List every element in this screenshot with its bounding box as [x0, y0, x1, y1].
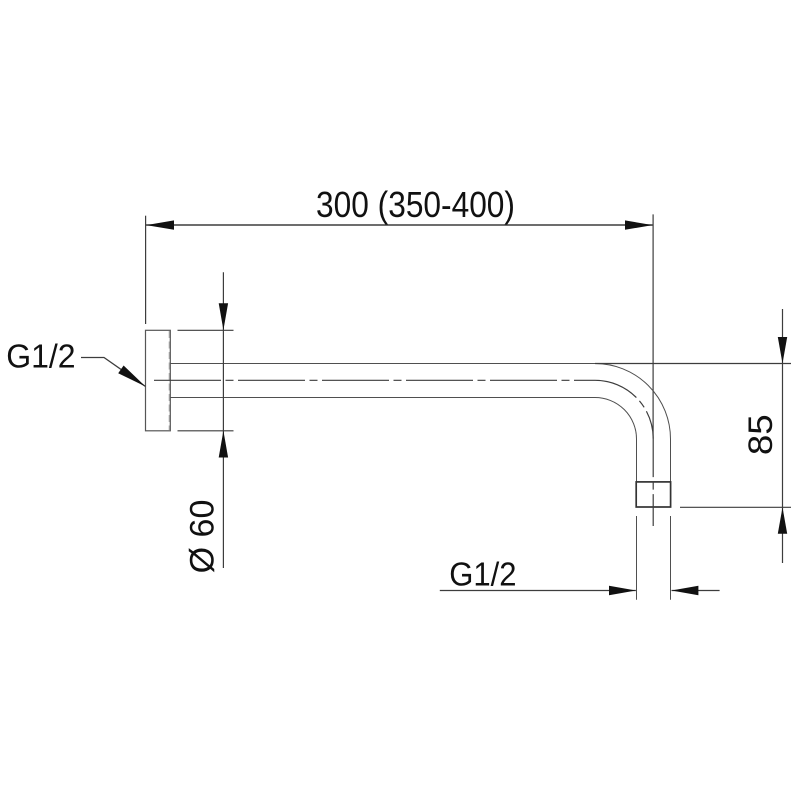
svg-text:G1/2: G1/2 — [449, 556, 516, 593]
leader arrowhead — [118, 366, 145, 387]
union nut — [636, 482, 670, 507]
dimension line 300 (350-400) — [146, 224, 653, 226]
extension line flange top — [178, 329, 234, 331]
outlet dimension line left part — [440, 590, 636, 592]
extension line tube top level — [595, 363, 791, 365]
tube below nut left line — [636, 516, 638, 600]
outlet dimension line right part — [672, 590, 720, 592]
tube bottom outline with inner bend arc — [170, 398, 636, 482]
svg-text:300 (350-400): 300 (350-400) — [316, 185, 515, 225]
extension line right (outlet axis) — [652, 214, 654, 438]
tube below nut right line — [670, 516, 672, 600]
arrow left of 300 dimension — [146, 220, 174, 229]
arrow up to flange bottom — [219, 431, 228, 458]
arrow right of 300 dimension — [625, 220, 653, 229]
extension line nut bottom level — [680, 506, 791, 508]
85 dimension line — [782, 309, 784, 563]
svg-text:G1/2: G1/2 — [6, 338, 75, 375]
centerline (dash-dot) — [154, 380, 653, 526]
svg-text:85: 85 — [742, 414, 779, 455]
extension line left (flange face) — [145, 216, 147, 324]
arrow down to flange top — [219, 303, 228, 330]
arrow up to nut bottom level — [778, 507, 787, 534]
svg-text:Ø 60: Ø 60 — [184, 500, 222, 574]
arrow down to tube top level — [778, 337, 787, 364]
arrow pointing left at tube right line — [672, 586, 699, 595]
flange (wall plate) — [146, 330, 171, 431]
arrow pointing right at tube left line — [609, 586, 636, 595]
tube top outline with outer bend arc — [170, 364, 670, 482]
diameter 60 dimension line — [222, 272, 224, 568]
hidden thread line (dashed) — [168, 331, 170, 431]
extension line flange bottom — [178, 430, 234, 432]
leader line to flange — [81, 358, 146, 387]
